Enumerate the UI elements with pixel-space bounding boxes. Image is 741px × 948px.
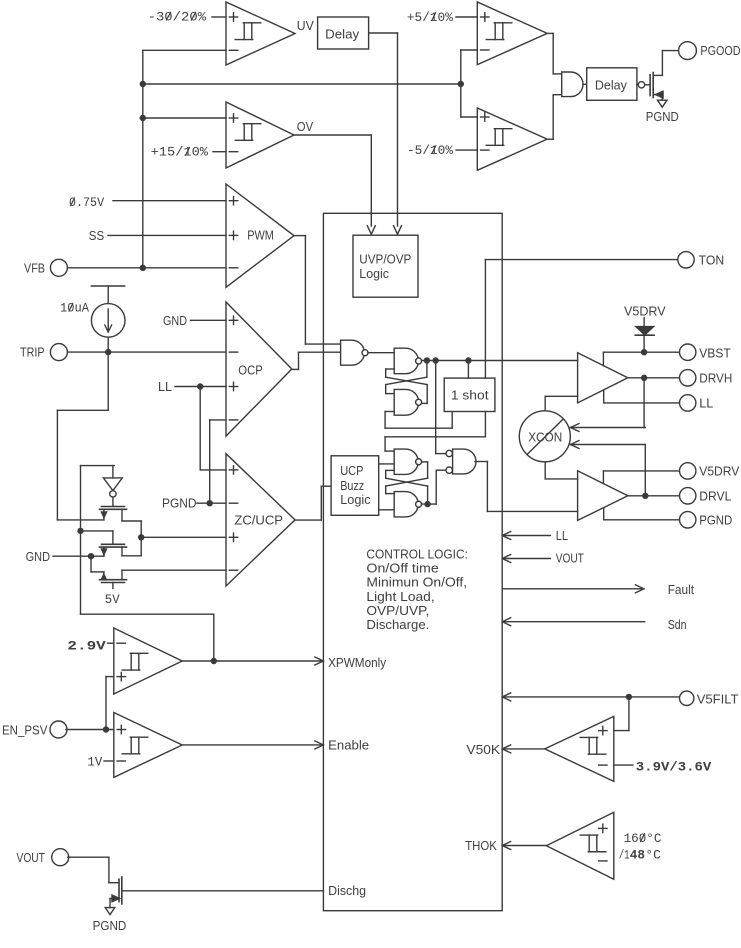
svg-text:-30/20%: -30/20% <box>148 10 207 25</box>
svg-text:THOK: THOK <box>465 838 497 853</box>
svg-text:OVP/UVP,: OVP/UVP, <box>366 603 429 618</box>
svg-text:LL: LL <box>158 379 172 394</box>
svg-text:Light Load,: Light Load, <box>366 589 434 604</box>
svg-text:2.9V: 2.9V <box>67 638 106 653</box>
svg-text:10uA: 10uA <box>60 301 89 316</box>
svg-text:TRIP: TRIP <box>20 345 45 360</box>
svg-text:1 shot: 1 shot <box>451 387 489 402</box>
svg-text:TON: TON <box>699 253 725 268</box>
svg-text:48: 48 <box>630 847 645 862</box>
svg-text:PWM: PWM <box>247 228 274 243</box>
svg-text:OCP: OCP <box>238 362 262 377</box>
svg-text:UCP: UCP <box>340 463 363 478</box>
svg-text:-5/10%: -5/10% <box>407 143 453 158</box>
svg-text:VOUT: VOUT <box>17 850 45 865</box>
svg-text:PGND: PGND <box>93 918 127 933</box>
svg-text:5V: 5V <box>105 592 120 607</box>
svg-text:Sdn: Sdn <box>668 617 687 632</box>
svg-text:Minimun On/Off,: Minimun On/Off, <box>366 575 467 590</box>
svg-text:PGOOD: PGOOD <box>700 43 740 58</box>
svg-text:Logic: Logic <box>359 266 389 281</box>
svg-text:VOUT: VOUT <box>556 551 584 566</box>
svg-text:VFB: VFB <box>24 260 45 275</box>
svg-text:XCON: XCON <box>528 430 562 445</box>
svg-text:Delay: Delay <box>595 78 627 93</box>
svg-text:/1: /1 <box>619 847 630 862</box>
svg-text:Fault: Fault <box>668 582 695 597</box>
svg-text:+5/10%: +5/10% <box>407 10 453 25</box>
svg-text:GND: GND <box>163 313 187 328</box>
svg-text:XPWMonly: XPWMonly <box>328 655 386 670</box>
svg-text:DRVL: DRVL <box>699 488 731 503</box>
svg-text:Buzz: Buzz <box>340 478 364 493</box>
svg-text:ZC/UCP: ZC/UCP <box>234 513 283 528</box>
svg-text:+15/10%: +15/10% <box>151 145 209 160</box>
svg-text:OV: OV <box>297 119 314 134</box>
svg-text:Delay: Delay <box>325 26 359 41</box>
svg-text:LL: LL <box>556 528 568 543</box>
svg-text:Enable: Enable <box>328 738 369 753</box>
svg-text:LL: LL <box>699 396 713 411</box>
svg-text:CONTROL LOGIC:: CONTROL LOGIC: <box>366 546 468 561</box>
svg-text:V5FILT: V5FILT <box>697 692 739 707</box>
svg-text:PGND: PGND <box>699 512 732 527</box>
svg-text:V5DRV: V5DRV <box>699 464 739 479</box>
svg-text:UVP/OVP: UVP/OVP <box>359 251 411 266</box>
svg-text:V5DRV: V5DRV <box>624 304 666 319</box>
svg-text:EN_PSV: EN_PSV <box>2 723 48 738</box>
svg-text:PGND: PGND <box>162 496 197 511</box>
svg-text:3.9V/3.6V: 3.9V/3.6V <box>636 760 712 775</box>
svg-text:SS: SS <box>89 228 105 243</box>
svg-text:On/Off time: On/Off time <box>366 560 438 575</box>
svg-text:Logic: Logic <box>340 492 371 507</box>
svg-text:DRVH: DRVH <box>699 370 732 385</box>
svg-text:UV: UV <box>297 18 314 33</box>
svg-text:°C: °C <box>645 847 661 862</box>
svg-text:VBST: VBST <box>699 345 730 360</box>
svg-text:1V: 1V <box>87 755 102 770</box>
svg-text:Discharge.: Discharge. <box>366 617 429 632</box>
svg-text:Dischg: Dischg <box>328 883 366 898</box>
svg-text:GND: GND <box>26 549 50 564</box>
svg-text:V50K: V50K <box>466 742 500 757</box>
svg-text:PGND: PGND <box>646 109 679 124</box>
